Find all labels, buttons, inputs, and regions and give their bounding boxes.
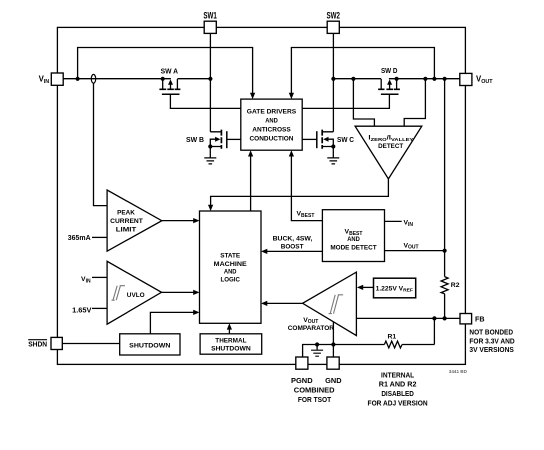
svg-text:SW1: SW1 bbox=[203, 10, 217, 20]
wire comparator ground tap and GND pin riser bbox=[332, 322, 334, 357]
svg-text:GATE DRIVERS: GATE DRIVERS bbox=[247, 109, 297, 116]
gate drivers box U-GD bbox=[241, 99, 302, 150]
svg-text:FOR TSOT: FOR TSOT bbox=[298, 395, 332, 404]
svg-text:SHDN: SHDN bbox=[28, 340, 47, 349]
transistor SW A bbox=[159, 79, 180, 94]
svg-text:FB: FB bbox=[475, 314, 485, 323]
svg-text:ANTICROSS: ANTICROSS bbox=[252, 127, 291, 134]
arrowhead into gate drivers top left bbox=[250, 93, 255, 99]
wire UVLO 1.65V input lead bbox=[92, 307, 107, 309]
svg-text:PEAK: PEAK bbox=[117, 210, 135, 217]
svg-text:SW C: SW C bbox=[337, 135, 354, 144]
junction dot detect left tap bbox=[351, 77, 355, 81]
svg-text:1.65V: 1.65V bbox=[72, 306, 92, 315]
svg-text:LIMIT: LIMIT bbox=[116, 227, 137, 234]
svg-text:SW B: SW B bbox=[186, 135, 204, 144]
wire thermal shutdown to state machine bbox=[228, 329, 230, 334]
wire UVLO output bbox=[162, 291, 195, 293]
svg-text:GND: GND bbox=[325, 376, 341, 385]
junction dot SW D source on rail bbox=[395, 77, 399, 81]
wire shutdown block to state machine bbox=[150, 312, 194, 333]
ground symbol at divider bbox=[311, 345, 323, 357]
svg-text:AND: AND bbox=[347, 236, 360, 243]
svg-text:COMPARATOR: COMPARATOR bbox=[288, 325, 334, 332]
svg-text:MODE DETECT: MODE DETECT bbox=[330, 245, 377, 252]
wire SHDN pin to shutdown block bbox=[62, 343, 119, 345]
wire VIN rail left segment bbox=[63, 78, 210, 80]
svg-text:LOGIC: LOGIC bbox=[220, 277, 240, 284]
svg-text:NOT BONDED: NOT BONDED bbox=[469, 328, 513, 337]
1.225V VREF reference box bbox=[374, 278, 416, 298]
wire SW B gate bbox=[227, 138, 241, 140]
pin GND bbox=[327, 357, 339, 369]
svg-text:CURRENT: CURRENT bbox=[110, 218, 144, 225]
svg-text:INTERNAL: INTERNAL bbox=[381, 370, 415, 379]
svg-text:R2: R2 bbox=[451, 282, 460, 289]
svg-text:DISABLED: DISABLED bbox=[381, 389, 414, 398]
UVLO comparator bbox=[107, 261, 161, 324]
svg-text:BOOST: BOOST bbox=[281, 244, 305, 251]
junction dot SW A source on rail bbox=[161, 77, 165, 81]
wire R1 right riser to FB line bbox=[433, 318, 435, 344]
junction dot SW C source bbox=[331, 144, 335, 148]
arrowhead into gate drivers top right bbox=[289, 93, 294, 99]
pin VIN bbox=[39, 73, 64, 85]
vbest and mode detect box bbox=[322, 210, 384, 262]
wire 365mA input lead bbox=[92, 236, 107, 238]
wire VBEST tap to gate drivers bbox=[291, 156, 322, 221]
junction dot GND comparator tap bbox=[331, 342, 335, 346]
svg-text:365mA: 365mA bbox=[68, 233, 91, 242]
wire SW C gate bbox=[302, 138, 317, 140]
junction dot R1 riser on FB line bbox=[432, 316, 436, 320]
wire ground bus with R1 left bbox=[303, 345, 435, 358]
pin PGND bbox=[296, 357, 308, 369]
wire detect triangle left input tab bbox=[353, 79, 374, 126]
junction dot VOUT node tap bbox=[443, 77, 447, 81]
junction dot gate-drive feed tap bbox=[432, 77, 436, 81]
wire state machine to gate drivers bbox=[250, 156, 252, 212]
pin SHDN bbox=[28, 337, 62, 349]
arrowhead vref into comparator bbox=[357, 285, 363, 290]
arrowhead thermal into state machine bbox=[227, 323, 232, 329]
wire FB line comparator to FB pin bbox=[356, 317, 460, 319]
wire VBEST box VIN lead bbox=[385, 220, 402, 222]
svg-text:SHUTDOWN: SHUTDOWN bbox=[211, 346, 251, 353]
wire SW A gate to gate drivers bbox=[170, 94, 240, 108]
svg-text:FOR 3.3V AND: FOR 3.3V AND bbox=[469, 336, 514, 345]
wire VOUT rail right segment bbox=[333, 78, 459, 80]
svg-text:COMBINED: COMBINED bbox=[294, 385, 335, 394]
svg-text:SW A: SW A bbox=[161, 67, 178, 76]
svg-text:CONDUCTION: CONDUCTION bbox=[250, 136, 294, 143]
svg-text:R1: R1 bbox=[387, 333, 396, 340]
svg-text:MACHINE: MACHINE bbox=[214, 261, 247, 268]
wire peak current output bbox=[162, 220, 194, 222]
svg-text:DETECT: DETECT bbox=[378, 143, 404, 150]
shutdown box bbox=[120, 334, 180, 355]
arrowhead UVLO into state machine bbox=[193, 290, 199, 295]
svg-text:SW2: SW2 bbox=[326, 10, 340, 20]
transistor SW D bbox=[378, 79, 400, 94]
wire VBEST box VOUT lead bbox=[385, 250, 445, 252]
junction dot SW B source bbox=[208, 144, 212, 148]
arrowhead mode line into state machine bbox=[261, 249, 267, 254]
junction dot VIN branch bbox=[76, 77, 80, 81]
arrowhead peak current into state machine bbox=[193, 218, 199, 223]
pin SW1 bbox=[203, 10, 217, 33]
svg-text:BUCK, 4SW,: BUCK, 4SW, bbox=[273, 235, 313, 242]
wire detect triangle right input tab bbox=[404, 79, 425, 126]
svg-text:AND: AND bbox=[224, 269, 237, 276]
wire buck 4sw boost mode line bbox=[267, 250, 323, 252]
svg-text:SHUTDOWN: SHUTDOWN bbox=[129, 342, 170, 349]
wire VREF to comparator bbox=[362, 286, 374, 288]
resistor R2 bbox=[441, 277, 448, 294]
arrowhead detect apex into state machine bbox=[208, 205, 213, 211]
svg-text:THERMAL: THERMAL bbox=[215, 337, 246, 344]
wire VIN up-over to gate drivers (left) bbox=[78, 48, 253, 94]
wire VOUT node vertical to R2 bbox=[444, 79, 446, 319]
svg-text:3V VERSIONS: 3V VERSIONS bbox=[469, 345, 514, 354]
thermal shutdown box bbox=[200, 334, 262, 354]
resistor R1 bbox=[384, 341, 402, 348]
svg-text:3441 BD: 3441 BD bbox=[449, 369, 468, 374]
pin FB bbox=[460, 314, 485, 324]
svg-text:STATE: STATE bbox=[220, 253, 240, 260]
transistor SW B bbox=[204, 130, 227, 164]
wire SW1 node vertical bbox=[209, 33, 211, 131]
svg-text:R1 AND R2: R1 AND R2 bbox=[379, 380, 417, 389]
IC outline border bbox=[57, 27, 465, 364]
wire current sense to peak current input bbox=[94, 83, 108, 205]
current sense ellipse on VIN rail bbox=[91, 74, 95, 83]
junction dot R2 bottom on FB line bbox=[443, 316, 447, 320]
junction dot detect right tap bbox=[423, 77, 427, 81]
pin VOUT bbox=[460, 73, 493, 85]
wire UVLO VIN input lead bbox=[92, 276, 107, 278]
svg-text:FOR ADJ VERSION: FOR ADJ VERSION bbox=[368, 399, 428, 408]
junction dot ground symbol node bbox=[315, 342, 319, 346]
arrowhead comparator into state machine bbox=[261, 301, 267, 306]
junction dot VOUT lead to R2 bbox=[443, 249, 447, 253]
transistor SW C bbox=[317, 130, 340, 164]
wire SW2 node vertical bbox=[332, 33, 334, 131]
svg-text:PGND: PGND bbox=[291, 376, 313, 385]
arrowhead vbest tap to gate drivers bbox=[289, 150, 294, 156]
wire VOUT up-over to gate drivers (right) bbox=[291, 48, 434, 94]
junction dot SW1 node on rail bbox=[208, 77, 212, 81]
wire detect apex to state machine bbox=[211, 179, 389, 206]
wire comparator output to state machine bbox=[267, 302, 303, 304]
junction dot SW2 node on rail bbox=[331, 77, 335, 81]
izero ivalley detect block bbox=[355, 126, 422, 179]
pin SW2 bbox=[326, 10, 340, 33]
vout comparator bbox=[303, 272, 357, 336]
peak current limit comparator bbox=[107, 190, 162, 251]
wire SW D gate to gate drivers bbox=[302, 94, 389, 108]
svg-text:SW D: SW D bbox=[381, 66, 398, 75]
svg-text:UVLO: UVLO bbox=[127, 292, 145, 299]
arrowhead state machine to gate drivers bbox=[248, 150, 253, 156]
state machine and logic box bbox=[200, 211, 262, 323]
arrowhead shutdown into state machine bbox=[193, 310, 199, 315]
svg-text:AND: AND bbox=[265, 117, 278, 124]
